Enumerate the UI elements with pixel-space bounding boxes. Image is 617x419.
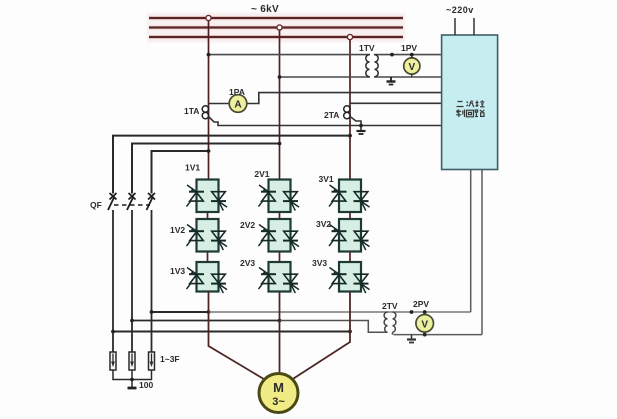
thyristor module 2V1 — [259, 180, 300, 213]
wire 2TA bottom stub — [350, 117, 361, 126]
wire output A (pole3 to column1) — [152, 311, 209, 313]
wire column 3 inter-row links — [349, 212, 351, 262]
thyristor module 2V2 — [259, 219, 300, 252]
wire 2TV secondary top to box — [470, 170, 472, 313]
svg-text:3V1: 3V1 — [319, 174, 334, 184]
thyristor module 3V3 — [329, 262, 370, 293]
thyristor module 1V1 — [187, 180, 228, 213]
wire 1TA bottom return — [209, 117, 442, 126]
svg-text:2V2: 2V2 — [240, 220, 255, 230]
svg-text:1PV: 1PV — [401, 43, 417, 53]
node on phase A — [207, 53, 211, 57]
surge arrester 3F — [149, 352, 155, 370]
thyristor module 3V1 — [329, 180, 370, 213]
bus bar L1 — [149, 16, 403, 21]
回 — [467, 110, 474, 117]
svg-text:1TA: 1TA — [184, 106, 199, 116]
wire 1TV secondary top to box — [374, 54, 442, 56]
phase A feeder — [208, 18, 210, 180]
wire 2TV secondary bottom — [394, 334, 483, 336]
wire output B (pole2 to column2) — [132, 320, 280, 322]
thyristor module 3V2 — [329, 219, 370, 252]
node — [390, 53, 394, 57]
surge arrester 2F — [129, 352, 135, 370]
QF pole2 lower lead — [131, 210, 133, 352]
wire 1TV primary bottom to phase B — [280, 76, 371, 78]
制 — [456, 110, 464, 118]
ground 1TV secondary — [387, 77, 396, 85]
svg-text:A: A — [234, 100, 241, 111]
wire QF pole3 to phase A — [152, 151, 209, 194]
transformer 2TV — [384, 312, 396, 335]
pole 3 blade — [147, 197, 154, 211]
thyristor module 2V3 — [259, 262, 300, 293]
voltmeter 2PV — [410, 310, 434, 336]
svg-text:1V3: 1V3 — [170, 266, 185, 276]
ammeter 1PA — [229, 95, 247, 113]
svg-text:2V1: 2V1 — [254, 169, 269, 179]
phase C feeder — [349, 37, 351, 180]
current transformer 2TA — [344, 106, 350, 119]
svg-text:1V2: 1V2 — [170, 225, 185, 235]
svg-text:~220v: ~220v — [446, 5, 474, 15]
svg-text:2V3: 2V3 — [240, 258, 255, 268]
bus glow band — [147, 13, 405, 43]
transformer 1TV — [366, 55, 378, 77]
node — [348, 134, 352, 138]
二 — [457, 102, 464, 107]
pole 2 blade — [127, 197, 134, 211]
svg-text:V: V — [421, 319, 428, 330]
ground arrester — [128, 387, 137, 390]
phase B feeder — [279, 28, 281, 181]
pole 3 contact — [148, 193, 155, 200]
pole 1 blade — [108, 197, 115, 211]
breaker QF — [108, 193, 155, 210]
thyristor module 1V2 — [187, 219, 228, 252]
wire column2 to motor — [279, 292, 281, 374]
svg-text:2TV: 2TV — [382, 301, 398, 311]
bus bar L3 — [149, 35, 403, 40]
node — [278, 142, 282, 146]
svg-text:2TA: 2TA — [324, 110, 339, 120]
voltmeter 1PV — [404, 53, 420, 77]
路 — [475, 110, 484, 117]
svg-text:3V2: 3V2 — [316, 219, 331, 229]
control box — [442, 35, 498, 170]
node bus tap 2 — [277, 25, 282, 30]
wire 220v stub 2 — [473, 18, 475, 35]
svg-text:3~: 3~ — [272, 396, 285, 408]
current transformer 1TA — [202, 106, 208, 119]
node — [359, 124, 363, 128]
wire 2TV return to box — [481, 170, 483, 335]
node on phase B — [278, 75, 282, 79]
次 — [467, 101, 475, 108]
QF pole3 lower lead — [151, 210, 153, 352]
svg-text:1~3F: 1~3F — [160, 354, 180, 364]
wire 1TA top to ammeter — [209, 103, 229, 105]
wire QF pole2 to phase B — [132, 144, 280, 194]
linkage dashes — [114, 204, 150, 206]
pole 1 contact — [110, 193, 117, 200]
box text line2 制回路 — [456, 110, 484, 118]
wire 1TV primary top — [209, 54, 371, 56]
wire ammeter to box — [247, 93, 441, 104]
svg-text:1PA: 1PA — [229, 87, 245, 97]
wire 220v stub 1 — [454, 18, 456, 35]
svg-text:QF: QF — [90, 200, 102, 210]
QF pole1 lower lead — [112, 210, 114, 352]
wire column3 to motor — [292, 292, 350, 380]
wire 1TV secondary bottom to box — [374, 76, 442, 78]
box text line1 二次控 — [457, 100, 485, 107]
wire column 2 inter-row links — [279, 212, 281, 262]
svg-text:V: V — [408, 62, 415, 73]
node bus tap 1 — [206, 15, 211, 20]
node bus tap 3 — [347, 34, 352, 39]
thyristor module 1V3 — [187, 262, 228, 293]
wire column1 to motor — [209, 292, 266, 381]
ground 2TA — [357, 126, 366, 135]
svg-text:3V3: 3V3 — [312, 258, 327, 268]
ground 2TV — [407, 335, 416, 343]
pole 2 contact — [129, 193, 136, 200]
wire 2TA top to box — [350, 102, 442, 104]
svg-text:100: 100 — [139, 380, 153, 390]
motor M — [259, 374, 298, 413]
wire column 1 inter-row links — [207, 212, 209, 262]
wire sense to 2TV — [209, 311, 471, 313]
wire B to 2TV primary — [280, 321, 388, 333]
控 — [476, 100, 485, 107]
wire arrester common — [113, 370, 152, 380]
svg-text:1V1: 1V1 — [185, 163, 200, 173]
wire output C (pole1 to column3) — [113, 331, 350, 333]
svg-text:M: M — [273, 380, 284, 395]
surge arrester 1F — [110, 352, 116, 370]
wire QF pole1 to phase C — [113, 136, 350, 194]
bus bar L2 — [149, 25, 403, 30]
svg-text:2PV: 2PV — [413, 299, 429, 309]
node — [207, 149, 211, 153]
svg-text:1TV: 1TV — [359, 43, 375, 53]
